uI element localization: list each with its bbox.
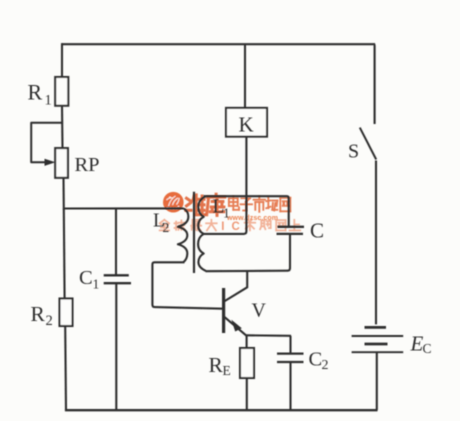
svg-text:1: 1 [93, 277, 100, 292]
svg-text:2: 2 [322, 358, 329, 373]
svg-text:R: R [31, 302, 46, 326]
svg-text:R: R [28, 80, 43, 105]
svg-text:C: C [310, 219, 324, 243]
svg-text:V: V [252, 300, 267, 322]
svg-text:1: 1 [45, 93, 52, 109]
svg-text:2: 2 [46, 313, 53, 329]
svg-text:C: C [232, 221, 240, 233]
svg-text:C: C [309, 349, 323, 371]
svg-text:1: 1 [223, 206, 230, 221]
svg-text:C: C [79, 267, 93, 289]
svg-text:S: S [348, 141, 359, 163]
svg-text:E: E [223, 363, 231, 378]
svg-text:R: R [209, 353, 224, 377]
svg-text:RP: RP [75, 154, 100, 176]
svg-text:2: 2 [163, 220, 170, 235]
svg-text:E: E [410, 332, 424, 356]
svg-text:K: K [239, 113, 254, 137]
svg-text:C: C [423, 341, 432, 356]
svg-text:I: I [221, 221, 224, 233]
